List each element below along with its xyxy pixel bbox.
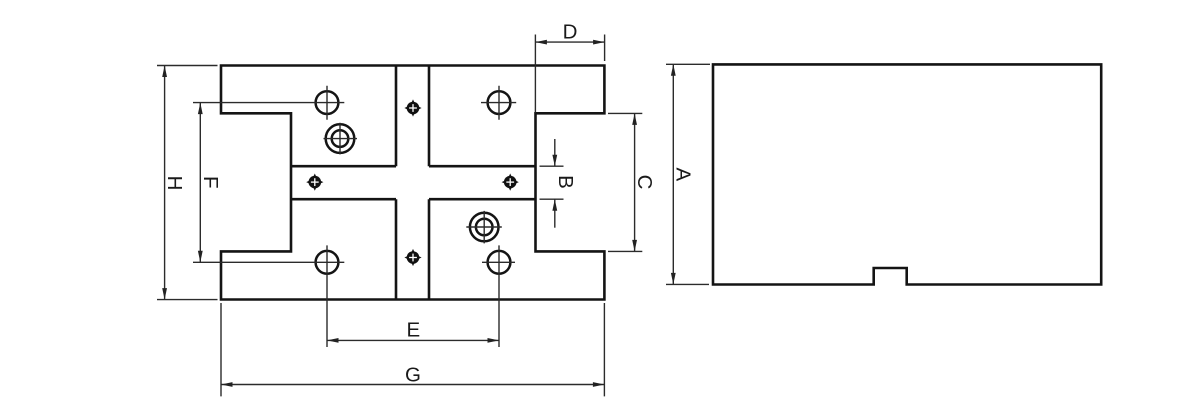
marker right (502, 174, 519, 191)
dimension D arrows (535, 40, 604, 45)
dimension A line (672, 64, 674, 284)
svg-text:H: H (163, 176, 186, 191)
cross channel vertical edge left (395, 66, 398, 300)
centerlines hole top-right (481, 86, 516, 120)
dimension B line lower (554, 199, 556, 228)
centerlines hole top-left (193, 86, 344, 120)
marker bottom (404, 249, 421, 266)
dimension D extension lines (535, 35, 604, 113)
dimension F arrows (198, 103, 203, 263)
dimension B extension lines (540, 166, 564, 199)
hole top-left (316, 91, 339, 114)
marker top (404, 99, 421, 116)
cross channel vertical edge right (428, 66, 431, 300)
dimension G extension lines (221, 303, 604, 396)
marker left (306, 174, 323, 191)
cross channel horizontal edge bottom (291, 198, 536, 201)
dimension C extension lines (608, 113, 642, 251)
hole bottom-left (316, 251, 339, 274)
hole bottom-right (488, 251, 511, 274)
centerlines counterbore lower (466, 211, 502, 244)
centerlines counterbore upper (324, 123, 358, 155)
dimension A arrows (671, 64, 676, 284)
centerlines hole bottom-left (193, 245, 344, 347)
dimension H line (164, 66, 166, 300)
svg-text:A: A (672, 167, 695, 181)
dimension B line upper (554, 139, 556, 166)
dimension B arrows (552, 155, 557, 211)
dimension A extension lines (666, 64, 710, 284)
dimension G line (221, 384, 604, 386)
svg-text:G: G (405, 363, 421, 386)
dimension D line (535, 41, 604, 43)
dimension E line (327, 339, 499, 341)
counterbore lower (470, 213, 499, 242)
dimension F line (199, 103, 201, 263)
dimension C arrows (632, 113, 637, 251)
svg-text:D: D (563, 21, 578, 44)
part outline left view (221, 66, 604, 300)
svg-text:B: B (554, 175, 577, 189)
dimension H extension lines (157, 66, 218, 300)
svg-text:E: E (407, 319, 421, 342)
svg-text:C: C (633, 175, 656, 190)
hole top-right (488, 91, 511, 114)
counterbore upper (326, 124, 355, 153)
cross channel horizontal edge top (291, 165, 536, 168)
dimension H arrows (162, 66, 167, 300)
part outline right view (713, 64, 1101, 284)
dimension E arrows (327, 338, 499, 343)
dimension C line (634, 113, 636, 251)
svg-text:F: F (199, 176, 222, 189)
dimension G arrows (221, 382, 604, 387)
centerlines hole bottom-right (482, 245, 515, 347)
